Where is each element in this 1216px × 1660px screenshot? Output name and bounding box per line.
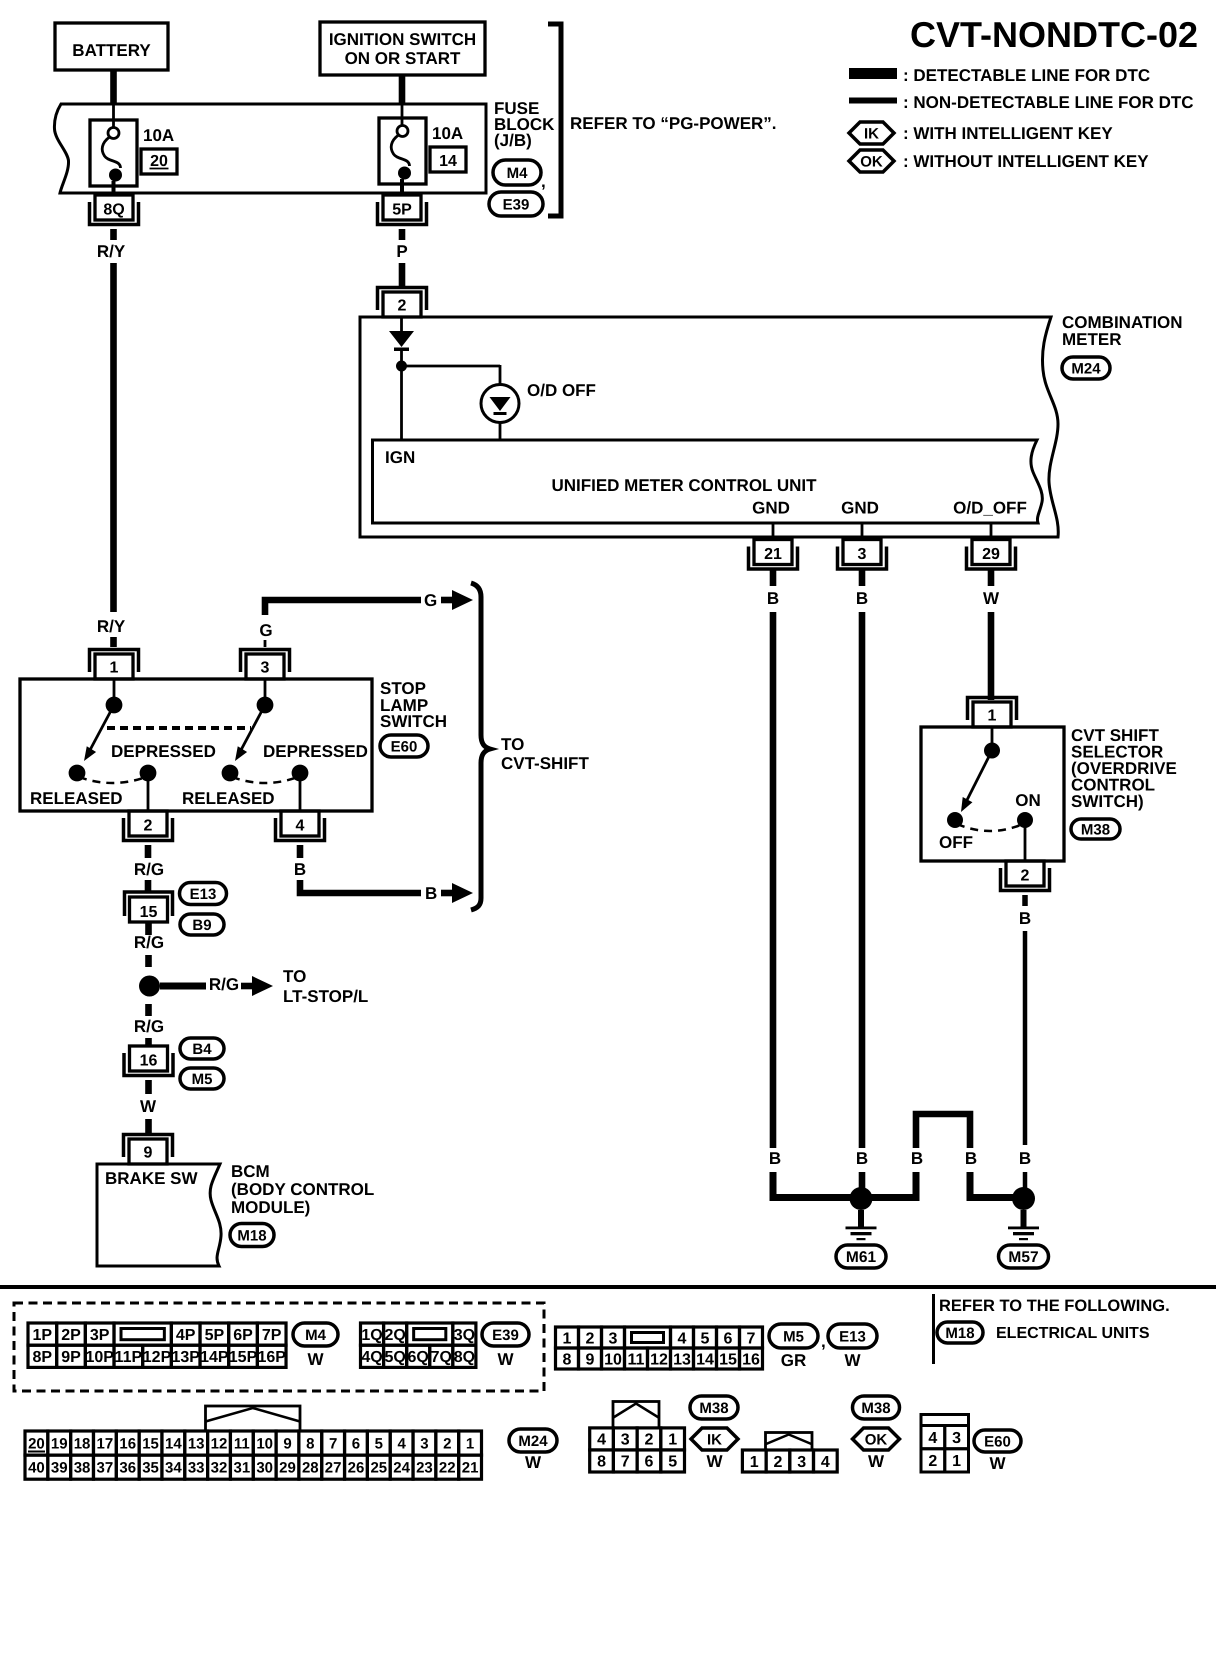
IK hexagon — [691, 1428, 738, 1450]
svg-text:8P: 8P — [33, 1349, 53, 1366]
switch 1 output wire — [147, 773, 150, 811]
connector 4 stop lamp switch — [281, 811, 319, 836]
svg-text:3: 3 — [621, 1432, 630, 1449]
connector 5P — [383, 195, 421, 220]
svg-text:M61: M61 — [846, 1249, 877, 1266]
legend: non-detectable line symbol — [849, 98, 897, 104]
switch 2 dashed travel arc — [232, 777, 298, 783]
svg-text:1: 1 — [988, 708, 997, 725]
OK hexagon — [853, 1428, 900, 1450]
svg-text:1Q: 1Q — [361, 1327, 382, 1344]
dashed group box M4/E39 — [14, 1303, 544, 1391]
svg-text:E39: E39 — [503, 196, 530, 213]
wire below 16 — [145, 1080, 152, 1094]
svg-text:B: B — [294, 860, 306, 879]
svg-text:14: 14 — [439, 153, 457, 170]
svg-text:ELECTRICAL UNITS: ELECTRICAL UNITS — [996, 1325, 1150, 1342]
fuse block (J/B) — [54, 104, 486, 193]
svg-text:33: 33 — [188, 1460, 205, 1477]
svg-text:MODULE): MODULE) — [231, 1198, 310, 1217]
svg-text:16P: 16P — [257, 1349, 286, 1366]
selector common contact — [984, 743, 1000, 759]
svg-text:37: 37 — [97, 1460, 114, 1477]
svg-text:5P: 5P — [205, 1327, 225, 1344]
svg-text:39: 39 — [51, 1460, 68, 1477]
brace to CVT-SHIFT — [471, 583, 490, 910]
svg-text:2: 2 — [398, 298, 407, 315]
arrow to LT-STOP/L — [241, 983, 253, 990]
wire B gnd21 run — [770, 612, 777, 1148]
connector face E39 — [361, 1323, 384, 1345]
svg-text:E60: E60 — [984, 1433, 1011, 1450]
svg-text:35: 35 — [142, 1460, 159, 1477]
svg-text:17: 17 — [97, 1435, 114, 1452]
svg-text:B9: B9 — [192, 917, 211, 934]
svg-text:GR: GR — [781, 1351, 807, 1370]
svg-text:DEPRESSED: DEPRESSED — [263, 742, 368, 761]
svg-text:31: 31 — [233, 1460, 250, 1477]
svg-text:9: 9 — [586, 1351, 595, 1368]
pin stub GND 3 — [861, 523, 864, 537]
svg-text:4: 4 — [296, 818, 305, 835]
unified meter control unit box — [373, 440, 1043, 523]
svg-text:,: , — [821, 1332, 826, 1351]
svg-text:5P: 5P — [392, 202, 412, 219]
wire B down to M57 — [1023, 1172, 1028, 1198]
wire bridge leg to M57 — [970, 1172, 1023, 1198]
E39 oval — [482, 1323, 529, 1346]
svg-text:TO: TO — [501, 735, 524, 754]
svg-text:15P: 15P — [229, 1349, 258, 1366]
svg-text:10P: 10P — [85, 1349, 114, 1366]
CVT shift selector box — [921, 727, 1064, 861]
svg-text:23: 23 — [416, 1460, 433, 1477]
svg-text:20: 20 — [28, 1435, 45, 1452]
wire G horizontal to arrow — [265, 600, 421, 615]
connector 3 — [843, 540, 881, 565]
svg-text:38: 38 — [74, 1460, 91, 1477]
svg-text:E39: E39 — [492, 1327, 519, 1344]
svg-text:12: 12 — [650, 1351, 668, 1368]
svg-text:1P: 1P — [33, 1327, 53, 1344]
selector dashed travel arc — [957, 824, 1023, 831]
svg-text:: WITHOUT INTELLIGENT KEY: : WITHOUT INTELLIGENT KEY — [903, 152, 1149, 171]
O/D OFF indicator lamp — [481, 385, 519, 423]
svg-text:E13: E13 — [839, 1328, 866, 1345]
svg-text:12P: 12P — [143, 1349, 172, 1366]
svg-text:B: B — [769, 1149, 781, 1168]
ignition switch — [320, 22, 485, 75]
svg-text:CVT-NONDTC-02: CVT-NONDTC-02 — [910, 14, 1198, 55]
dashed wire to junction — [145, 955, 152, 967]
svg-text:14: 14 — [696, 1351, 714, 1368]
junction dot LT-STOP/L — [139, 976, 160, 997]
svg-text:28: 28 — [302, 1460, 319, 1477]
svg-text:W: W — [868, 1452, 885, 1471]
svg-text:7: 7 — [329, 1435, 337, 1452]
connector face M5/E13 — [556, 1327, 579, 1348]
svg-text:M5: M5 — [192, 1071, 213, 1088]
svg-text:BRAKE SW: BRAKE SW — [105, 1169, 199, 1188]
svg-text:P: P — [396, 242, 407, 261]
svg-text:1: 1 — [466, 1435, 474, 1452]
svg-text:M24: M24 — [1071, 360, 1101, 377]
svg-text:29: 29 — [279, 1460, 296, 1477]
switch 1 contact wire — [113, 679, 116, 705]
selector OFF contact — [947, 812, 963, 828]
svg-text:3: 3 — [952, 1430, 961, 1447]
wire stubs below meter — [770, 570, 777, 586]
svg-text:1: 1 — [750, 1454, 759, 1471]
refer to the following — [932, 1294, 935, 1364]
svg-text:2Q: 2Q — [384, 1327, 405, 1344]
svg-text:IK: IK — [864, 125, 879, 142]
svg-text:M4: M4 — [305, 1327, 326, 1344]
fuse number 14 — [430, 147, 466, 172]
svg-text:8: 8 — [597, 1454, 606, 1471]
svg-text:8: 8 — [306, 1435, 314, 1452]
switch 1 released contact — [69, 765, 86, 782]
wire below connector 2 — [145, 845, 152, 858]
svg-text:13: 13 — [188, 1435, 205, 1452]
svg-text:26: 26 — [348, 1460, 365, 1477]
svg-text:1: 1 — [110, 660, 119, 677]
diode — [389, 331, 414, 347]
svg-text:4: 4 — [597, 1432, 606, 1449]
connector 1 CVT shift selector — [973, 702, 1011, 727]
svg-text:W: W — [706, 1452, 723, 1471]
svg-text:11: 11 — [234, 1435, 250, 1452]
M38 oval — [853, 1396, 900, 1419]
svg-text:B: B — [856, 589, 868, 608]
fuse 20 (10A) — [90, 120, 137, 186]
svg-text:6: 6 — [644, 1454, 653, 1471]
wire fuse 14 to connector 5P — [400, 179, 404, 196]
connector 2 CVT shift selector — [1006, 861, 1044, 886]
connector 1 stop lamp switch — [95, 654, 133, 679]
separator line — [0, 1285, 1216, 1289]
switch 2 common contact — [257, 697, 274, 714]
wire below 5P — [399, 229, 406, 240]
wire B down to M61 — [859, 1172, 866, 1198]
wire conn2 to diode — [400, 317, 403, 331]
wire B to M61 corner — [773, 1172, 861, 1198]
svg-text:3: 3 — [858, 546, 867, 563]
svg-text:7: 7 — [621, 1454, 630, 1471]
svg-text:M38: M38 — [861, 1400, 890, 1417]
svg-text:32: 32 — [211, 1460, 228, 1477]
connector face E60 — [921, 1415, 969, 1473]
wire junction to O/D OFF lamp — [402, 365, 501, 368]
svg-text:(J/B): (J/B) — [494, 131, 532, 150]
dashed wire below junction — [145, 1004, 152, 1016]
wire fuse 20 to connector 8Q — [112, 181, 116, 196]
svg-text:14: 14 — [165, 1435, 182, 1452]
svg-text:13: 13 — [673, 1351, 691, 1368]
connector B9 oval — [180, 914, 224, 935]
svg-text:RELEASED: RELEASED — [182, 789, 275, 808]
svg-text:GND: GND — [841, 499, 879, 518]
svg-text:19: 19 — [51, 1435, 68, 1452]
switch 1 common contact — [106, 697, 123, 714]
svg-text:3Q: 3Q — [454, 1327, 475, 1344]
svg-text:REFER TO “PG-POWER”.: REFER TO “PG-POWER”. — [570, 114, 777, 133]
legend: detectable line symbol — [849, 68, 897, 79]
svg-text:UNIFIED METER CONTROL UNIT: UNIFIED METER CONTROL UNIT — [551, 476, 817, 495]
svg-text:2: 2 — [928, 1453, 937, 1470]
svg-text:REFER TO THE FOLLOWING.: REFER TO THE FOLLOWING. — [939, 1297, 1170, 1315]
wire battery to fuse block — [110, 70, 117, 105]
svg-text:3: 3 — [797, 1454, 806, 1471]
svg-text:29: 29 — [982, 546, 1000, 563]
svg-text:M18: M18 — [945, 1325, 974, 1342]
svg-text:M18: M18 — [237, 1227, 266, 1244]
ground junction M61 — [850, 1187, 873, 1210]
svg-text:34: 34 — [165, 1460, 182, 1477]
svg-text:M38: M38 — [1081, 821, 1110, 838]
connector face M4 — [28, 1323, 57, 1345]
switch 2 depressed contact — [292, 765, 309, 782]
M24 oval — [509, 1429, 557, 1452]
selector ON contact — [1017, 812, 1033, 828]
svg-text:5: 5 — [701, 1330, 710, 1347]
svg-text:4: 4 — [928, 1430, 937, 1447]
svg-text:E13: E13 — [190, 886, 217, 903]
svg-text:B: B — [1019, 909, 1031, 928]
svg-text:CVT-SHIFT: CVT-SHIFT — [501, 754, 589, 773]
selector contact wire — [991, 727, 994, 750]
fuse block connector M4 — [493, 160, 541, 185]
svg-text:4Q: 4Q — [361, 1349, 382, 1366]
fuse number 20 — [141, 149, 177, 174]
svg-text:OK: OK — [860, 153, 883, 170]
svg-text:DEPRESSED: DEPRESSED — [111, 742, 216, 761]
connector 29 — [972, 540, 1010, 565]
svg-text:W: W — [140, 1097, 157, 1116]
svg-text:2: 2 — [586, 1330, 595, 1347]
svg-text:IGNITION SWITCH: IGNITION SWITCH — [329, 30, 476, 49]
svg-text:: DETECTABLE LINE FOR DTC: : DETECTABLE LINE FOR DTC — [903, 66, 1150, 85]
switch 1 dashed travel arc — [79, 777, 146, 783]
ground bridge (inverted U) — [916, 1114, 970, 1148]
svg-text:3P: 3P — [90, 1327, 110, 1344]
connector B4 oval — [180, 1038, 224, 1059]
svg-text:10: 10 — [256, 1435, 273, 1452]
connector face M24 — [206, 1406, 301, 1431]
svg-text:2: 2 — [644, 1432, 653, 1449]
svg-text:14P: 14P — [200, 1349, 229, 1366]
combination meter connector M24 — [1062, 357, 1110, 379]
ground junction M57 — [1012, 1187, 1035, 1210]
svg-text:8Q: 8Q — [103, 202, 124, 219]
svg-text:O/D OFF: O/D OFF — [527, 381, 596, 400]
svg-text:TO: TO — [283, 967, 306, 986]
ground M61 oval — [836, 1245, 886, 1268]
svg-text:3: 3 — [609, 1330, 618, 1347]
mechanical link dashed — [107, 726, 251, 730]
svg-text:7P: 7P — [262, 1327, 282, 1344]
svg-text:B: B — [425, 884, 437, 903]
connector 2 stop lamp switch — [129, 811, 167, 836]
wire junction to arrow — [160, 983, 206, 990]
svg-text:M24: M24 — [518, 1433, 548, 1450]
svg-text:15: 15 — [719, 1351, 737, 1368]
wire W od off run — [988, 612, 995, 700]
svg-text:9: 9 — [283, 1435, 291, 1452]
svg-text:3: 3 — [261, 660, 270, 677]
wire into fuse 20 — [112, 104, 115, 128]
svg-text:R/Y: R/Y — [97, 617, 126, 636]
CVT selector connector M38 — [1071, 819, 1120, 839]
ground M57 oval — [999, 1245, 1049, 1268]
svg-text:G: G — [424, 591, 437, 610]
switch 2 contact wire — [264, 679, 267, 705]
wire junction down to IGN — [400, 366, 403, 441]
stop lamp switch connector E60 — [380, 735, 428, 757]
stop lamp switch box — [20, 679, 372, 811]
svg-text:7Q: 7Q — [431, 1349, 452, 1366]
svg-text:15: 15 — [142, 1435, 159, 1452]
svg-text:30: 30 — [256, 1460, 273, 1477]
svg-text:4: 4 — [821, 1454, 830, 1471]
svg-text:2: 2 — [443, 1435, 451, 1452]
svg-text:2: 2 — [773, 1454, 782, 1471]
svg-text:40: 40 — [28, 1460, 45, 1477]
junction node — [396, 361, 407, 372]
legend: IK with intelligent key — [849, 122, 894, 144]
connector face M38 OK — [766, 1433, 813, 1451]
svg-text:O/D_OFF: O/D_OFF — [953, 499, 1027, 518]
wire ignition switch to fuse block — [399, 75, 406, 105]
svg-text:B: B — [767, 589, 779, 608]
svg-text:B4: B4 — [192, 1041, 212, 1058]
arrow to CVT-SHIFT (B) — [441, 890, 453, 897]
svg-text:15: 15 — [140, 904, 158, 921]
svg-text:4P: 4P — [176, 1327, 196, 1344]
svg-text:R/G: R/G — [134, 860, 164, 879]
svg-text:11P: 11P — [115, 1349, 143, 1366]
svg-text:M5: M5 — [783, 1328, 804, 1345]
svg-text:ON: ON — [1015, 791, 1041, 810]
svg-text:W: W — [983, 589, 1000, 608]
svg-text:G: G — [259, 621, 272, 640]
svg-text:16: 16 — [119, 1435, 136, 1452]
svg-text:W: W — [525, 1453, 542, 1472]
connector M5 oval — [180, 1068, 224, 1089]
wire below connector 4 — [297, 845, 304, 858]
svg-text:B: B — [856, 1149, 868, 1168]
svg-text:10A: 10A — [432, 124, 463, 143]
svg-text:11: 11 — [628, 1351, 645, 1368]
svg-text:E60: E60 — [391, 738, 418, 755]
svg-text:6Q: 6Q — [408, 1349, 429, 1366]
svg-text:5Q: 5Q — [384, 1349, 405, 1366]
svg-text:16: 16 — [140, 1053, 158, 1070]
E60 oval — [974, 1430, 1021, 1452]
svg-text:2: 2 — [1021, 868, 1030, 885]
svg-text:27: 27 — [325, 1460, 342, 1477]
svg-text:36: 36 — [119, 1460, 136, 1477]
svg-text:SWITCH): SWITCH) — [1071, 792, 1144, 811]
svg-text:METER: METER — [1062, 330, 1122, 349]
selector arm arrow — [966, 751, 992, 803]
svg-text:LT-STOP/L: LT-STOP/L — [283, 987, 368, 1006]
wire bridge leg to M61 — [861, 1172, 916, 1198]
svg-text:12: 12 — [211, 1435, 228, 1452]
connector E13 oval — [180, 883, 227, 905]
M18 oval — [937, 1322, 983, 1343]
svg-text:: NON-DETECTABLE LINE FOR DTC: : NON-DETECTABLE LINE FOR DTC — [903, 93, 1194, 112]
connector face M38 IK — [613, 1402, 659, 1429]
switch 2 released contact — [222, 765, 239, 782]
svg-text:4: 4 — [678, 1330, 687, 1347]
switch 2 arm arrow — [241, 705, 265, 750]
svg-text:5: 5 — [375, 1435, 383, 1452]
svg-text:4: 4 — [397, 1435, 406, 1452]
pin stub O/D_OFF 29 — [990, 523, 993, 537]
svg-text:B: B — [965, 1149, 977, 1168]
fuse block connector E39 — [489, 192, 543, 216]
legend: OK without intelligent key — [849, 150, 894, 172]
svg-text:10A: 10A — [143, 126, 174, 145]
svg-text:20: 20 — [150, 153, 168, 170]
connector 9 BCM — [129, 1139, 167, 1164]
svg-text:B: B — [1019, 1149, 1031, 1168]
switch 1 depressed contact — [140, 765, 157, 782]
svg-text:BATTERY: BATTERY — [72, 41, 151, 60]
svg-text:OK: OK — [865, 1431, 888, 1448]
svg-text:: WITH INTELLIGENT KEY: : WITH INTELLIGENT KEY — [903, 124, 1113, 143]
fuse 14 (10A) — [379, 118, 426, 184]
svg-text:M38: M38 — [699, 1400, 728, 1417]
svg-text:25: 25 — [370, 1460, 387, 1477]
svg-text:(BODY CONTROL: (BODY CONTROL — [231, 1180, 374, 1199]
svg-text:,: , — [541, 172, 546, 191]
svg-text:R/G: R/G — [134, 933, 164, 952]
connector 8Q — [95, 195, 133, 220]
wire R/Y vertical run — [110, 263, 117, 612]
svg-text:SWITCH: SWITCH — [380, 712, 447, 731]
connector 21 — [754, 540, 792, 565]
svg-text:24: 24 — [393, 1460, 410, 1477]
arrow to CVT-SHIFT (G) — [441, 597, 453, 604]
svg-text:18: 18 — [74, 1435, 91, 1452]
BCM box — [97, 1164, 221, 1266]
svg-text:2P: 2P — [61, 1327, 81, 1344]
wire P run — [399, 263, 406, 289]
svg-text:1: 1 — [952, 1453, 961, 1470]
svg-text:22: 22 — [439, 1460, 456, 1477]
svg-text:W: W — [497, 1350, 514, 1369]
E13 oval — [828, 1324, 877, 1348]
svg-text:1: 1 — [563, 1330, 572, 1347]
wire into fuse 14 — [401, 104, 404, 126]
svg-text:7: 7 — [747, 1330, 756, 1347]
svg-text:W: W — [844, 1351, 861, 1370]
combination meter box — [360, 317, 1058, 537]
svg-text:IK: IK — [707, 1431, 722, 1448]
selector output wire — [1024, 820, 1027, 861]
wire below 8Q — [110, 229, 117, 240]
BCM connector M18 — [230, 1224, 274, 1247]
wire below connector 2 — [1022, 895, 1028, 906]
svg-text:M57: M57 — [1008, 1249, 1038, 1266]
svg-text:6P: 6P — [233, 1327, 253, 1344]
svg-text:B: B — [911, 1149, 923, 1168]
svg-text:3: 3 — [420, 1435, 428, 1452]
svg-text:8: 8 — [563, 1351, 572, 1368]
connector 3 stop lamp switch — [246, 654, 284, 679]
